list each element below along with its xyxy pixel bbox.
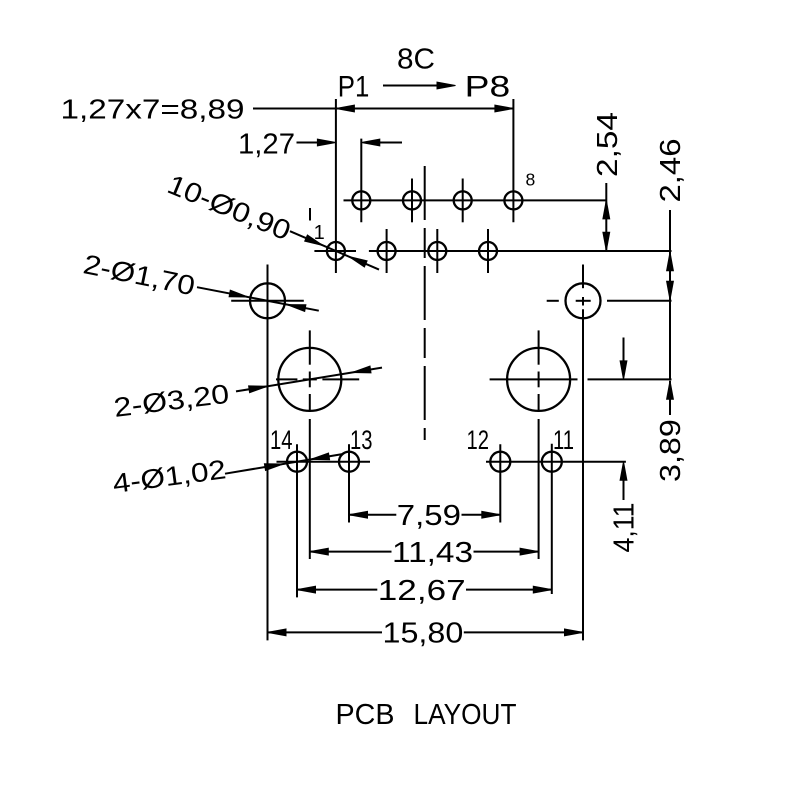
- extension line P1 column: [335, 99, 337, 273]
- leader text 10-Ø0.90: [163, 168, 295, 246]
- arrowhead 2.54 down: [603, 232, 610, 251]
- top pin row centerline: [344, 199, 607, 201]
- hole 3.20 left centermark v: [309, 330, 311, 364]
- leader arrowhead 1.70 b: [287, 305, 306, 312]
- svg-text:12: 12: [467, 425, 490, 455]
- pin hole top row 2: [454, 191, 472, 209]
- svg-text:2-Ø1,70: 2-Ø1,70: [81, 248, 198, 301]
- leader arrowhead 3.20 a: [249, 386, 268, 393]
- dimension line 7.59: [349, 514, 396, 516]
- pin 12 crosshair: [499, 444, 501, 522]
- pin 5 crosshair: [436, 229, 438, 273]
- hole 3.20 left centermark h: [276, 378, 297, 380]
- dimension line 2.46: [669, 210, 671, 379]
- vertical center line: [424, 166, 426, 440]
- pin hole bottom row 0: [327, 242, 345, 260]
- arrowhead 1.27 right: [361, 139, 380, 146]
- dimension text 3.89: [655, 419, 687, 482]
- hole 1.70 left: [250, 283, 285, 318]
- svg-text:11,43: 11,43: [392, 537, 473, 569]
- pin 12 hole: [490, 452, 510, 472]
- leader text 2-Ø3.20: [112, 379, 231, 423]
- leader text 4-Ø1.02: [111, 454, 228, 499]
- pin 2 column crosshair: [360, 139, 362, 223]
- leader text 2-Ø1.70: [81, 248, 198, 301]
- arrowhead 8.89 left: [336, 105, 355, 112]
- pin hole top row 0: [352, 191, 370, 209]
- leader line 10-Ø0.90: [290, 231, 379, 269]
- arrowhead 15.80 right: [565, 629, 584, 636]
- pin 6 crosshair: [462, 179, 464, 223]
- arrowhead 2.46 up: [667, 252, 674, 271]
- dimension line 15.80: [268, 631, 383, 633]
- arrowhead 11.43 right: [520, 548, 539, 555]
- arrowhead 3.89 up: [667, 381, 674, 400]
- pin 7 crosshair: [487, 229, 489, 273]
- dimension text 2.46: [655, 139, 687, 203]
- arrowhead 12.67 right: [533, 586, 552, 593]
- svg-text:8C: 8C: [397, 44, 435, 76]
- arrowhead 8.89 right: [495, 105, 514, 112]
- dimension 4.11 lower tail: [623, 480, 625, 500]
- arrowhead 7.59 left: [349, 511, 368, 518]
- svg-text:3,89: 3,89: [655, 419, 687, 482]
- hole 1.70 right: [566, 283, 601, 318]
- pin hole bottom row 1: [378, 242, 396, 260]
- dimension line 2.54: [605, 183, 607, 251]
- arrowhead 12.67 left: [297, 586, 316, 593]
- leader arrowhead 1.02 b: [311, 453, 330, 460]
- svg-text:13: 13: [350, 425, 373, 455]
- svg-text:8: 8: [526, 170, 536, 190]
- pin hole bottom row 2: [428, 242, 446, 260]
- pin 14 crosshair: [296, 444, 298, 597]
- pin 13 crosshair: [348, 444, 350, 522]
- pin 11 crosshair: [551, 444, 553, 594]
- extension line P8 column: [512, 99, 514, 222]
- leader line 3.20: [236, 368, 382, 392]
- dimension tail 3.89: [669, 381, 671, 415]
- pin 14 hole: [287, 452, 307, 472]
- pin 11 hole: [542, 452, 562, 472]
- svg-text:11: 11: [553, 425, 574, 455]
- dimension line 1.27: [297, 142, 318, 144]
- leader line 1.02: [225, 454, 343, 474]
- leader arrowhead 0.90 a: [305, 235, 323, 246]
- arrowhead 1.27 left: [317, 139, 336, 146]
- svg-text:LAYOUT: LAYOUT: [414, 699, 517, 731]
- svg-text:10-Ø0,90: 10-Ø0,90: [163, 168, 295, 246]
- svg-text:P1: P1: [338, 71, 370, 104]
- svg-text:14: 14: [270, 425, 293, 455]
- dimension text 2.54: [592, 112, 624, 177]
- pin hole bottom row 3: [479, 242, 497, 260]
- leader arrowhead 1.70 a: [229, 290, 248, 297]
- svg-text:15,80: 15,80: [383, 618, 464, 650]
- arrowhead 11.43 left: [310, 548, 329, 555]
- arrowhead 15.80 left: [268, 629, 287, 636]
- dimension line 8.89: [253, 108, 514, 110]
- leader arrowhead 0.90 b: [349, 257, 367, 268]
- pin hole top row 3: [504, 191, 522, 209]
- hole 1.70 right crosshair: [547, 300, 559, 302]
- hole 3.20 right: [507, 348, 570, 411]
- dimension text 4.11: [609, 503, 641, 553]
- pin hole top row 1: [403, 191, 421, 209]
- svg-text:2,54: 2,54: [592, 112, 624, 177]
- hole 3.20 right centermark h: [490, 378, 578, 380]
- svg-text:2,46: 2,46: [655, 139, 687, 203]
- hole 3.20 right centermark v: [538, 330, 540, 364]
- arrowhead 2.54 up: [603, 200, 610, 219]
- arrowhead 2.46 down: [667, 281, 674, 300]
- svg-text:4,11: 4,11: [609, 503, 641, 553]
- svg-text:PCB: PCB: [336, 699, 395, 731]
- dimension line 11.43: [310, 551, 392, 553]
- svg-text:2-Ø3,20: 2-Ø3,20: [112, 379, 231, 423]
- pin 13 hole: [339, 452, 359, 472]
- svg-text:12,67: 12,67: [378, 575, 466, 607]
- pin 4 crosshair: [411, 179, 413, 223]
- svg-text:4-Ø1,02: 4-Ø1,02: [111, 454, 228, 499]
- leader line 1.70: [197, 287, 319, 311]
- pin 3 crosshair: [386, 229, 388, 273]
- arrow P1 to P8: [383, 85, 440, 87]
- dimension line 12.67: [297, 589, 377, 591]
- leader arrowhead 1.02 a: [264, 464, 283, 471]
- arrowhead 4.11 up: [620, 462, 627, 481]
- bottom pin row centerline: [314, 250, 356, 252]
- svg-text:P8: P8: [465, 71, 511, 104]
- arrowhead 4.11 down: [620, 361, 627, 380]
- hole 3.20 left: [278, 348, 341, 411]
- arrowhead 7.59 right: [482, 511, 501, 518]
- leader arrowhead 3.20 b: [352, 366, 371, 373]
- svg-text:7,59: 7,59: [397, 500, 461, 532]
- hole 1.70 left crosshair: [231, 300, 304, 302]
- svg-text:1,27x7=8,89: 1,27x7=8,89: [61, 94, 245, 125]
- tick above pin 1 label: [309, 208, 311, 221]
- svg-text:1,27: 1,27: [238, 129, 295, 161]
- dimension 4.11 upper tail: [623, 338, 625, 363]
- pin row 11-14 centerline: [277, 461, 371, 463]
